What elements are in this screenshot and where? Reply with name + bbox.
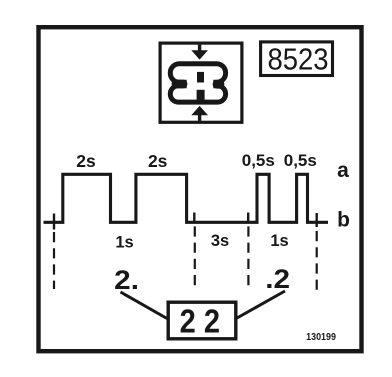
svg-text:b: b [337,209,350,232]
svg-text:0,5s: 0,5s [284,151,317,170]
icon symbol: bottom capsule [170,86,225,102]
icon arrow down (top) [191,45,208,60]
tick 2 [193,213,195,222]
code box 8523 [261,42,333,76]
svg-text:.2: .2 [265,264,290,294]
svg-text:2s: 2s [76,151,96,171]
svg-text:2.: 2. [114,265,139,295]
svg-text:2s: 2s [148,151,168,171]
svg-text:3s: 3s [211,232,229,250]
svg-text:1s: 1s [270,232,288,250]
tick 4 [316,213,318,227]
icon symbol: center square [197,72,204,83]
icon symbol: center notch eraser [187,77,214,89]
icon symbol: left arm rounded tip [176,80,183,89]
svg-text:a: a [337,159,349,182]
dashed line 3 [247,226,249,289]
svg-text:0,5s: 0,5s [242,151,275,170]
result box [168,302,236,339]
icon box [160,43,242,122]
icon symbol: right arm rounded tip [217,80,220,89]
icon symbol: top capsule [170,64,225,83]
tick 1 [53,214,55,230]
svg-text:130199: 130199 [306,331,336,343]
svg-text:8523: 8523 [267,43,328,77]
icon symbol: center bar [197,90,205,104]
leader line right [237,291,285,318]
tick 3 [247,213,249,222]
waveform trace [44,174,329,222]
dashed line 4 [316,231,318,290]
svg-text:2 2: 2 2 [180,303,220,340]
svg-text:1s: 1s [115,234,133,252]
icon arrow up (bottom) [191,106,208,121]
dashed line 1 [53,232,55,289]
leader line left [121,292,168,319]
outer frame [39,27,362,351]
dashed line 2 [194,226,196,289]
